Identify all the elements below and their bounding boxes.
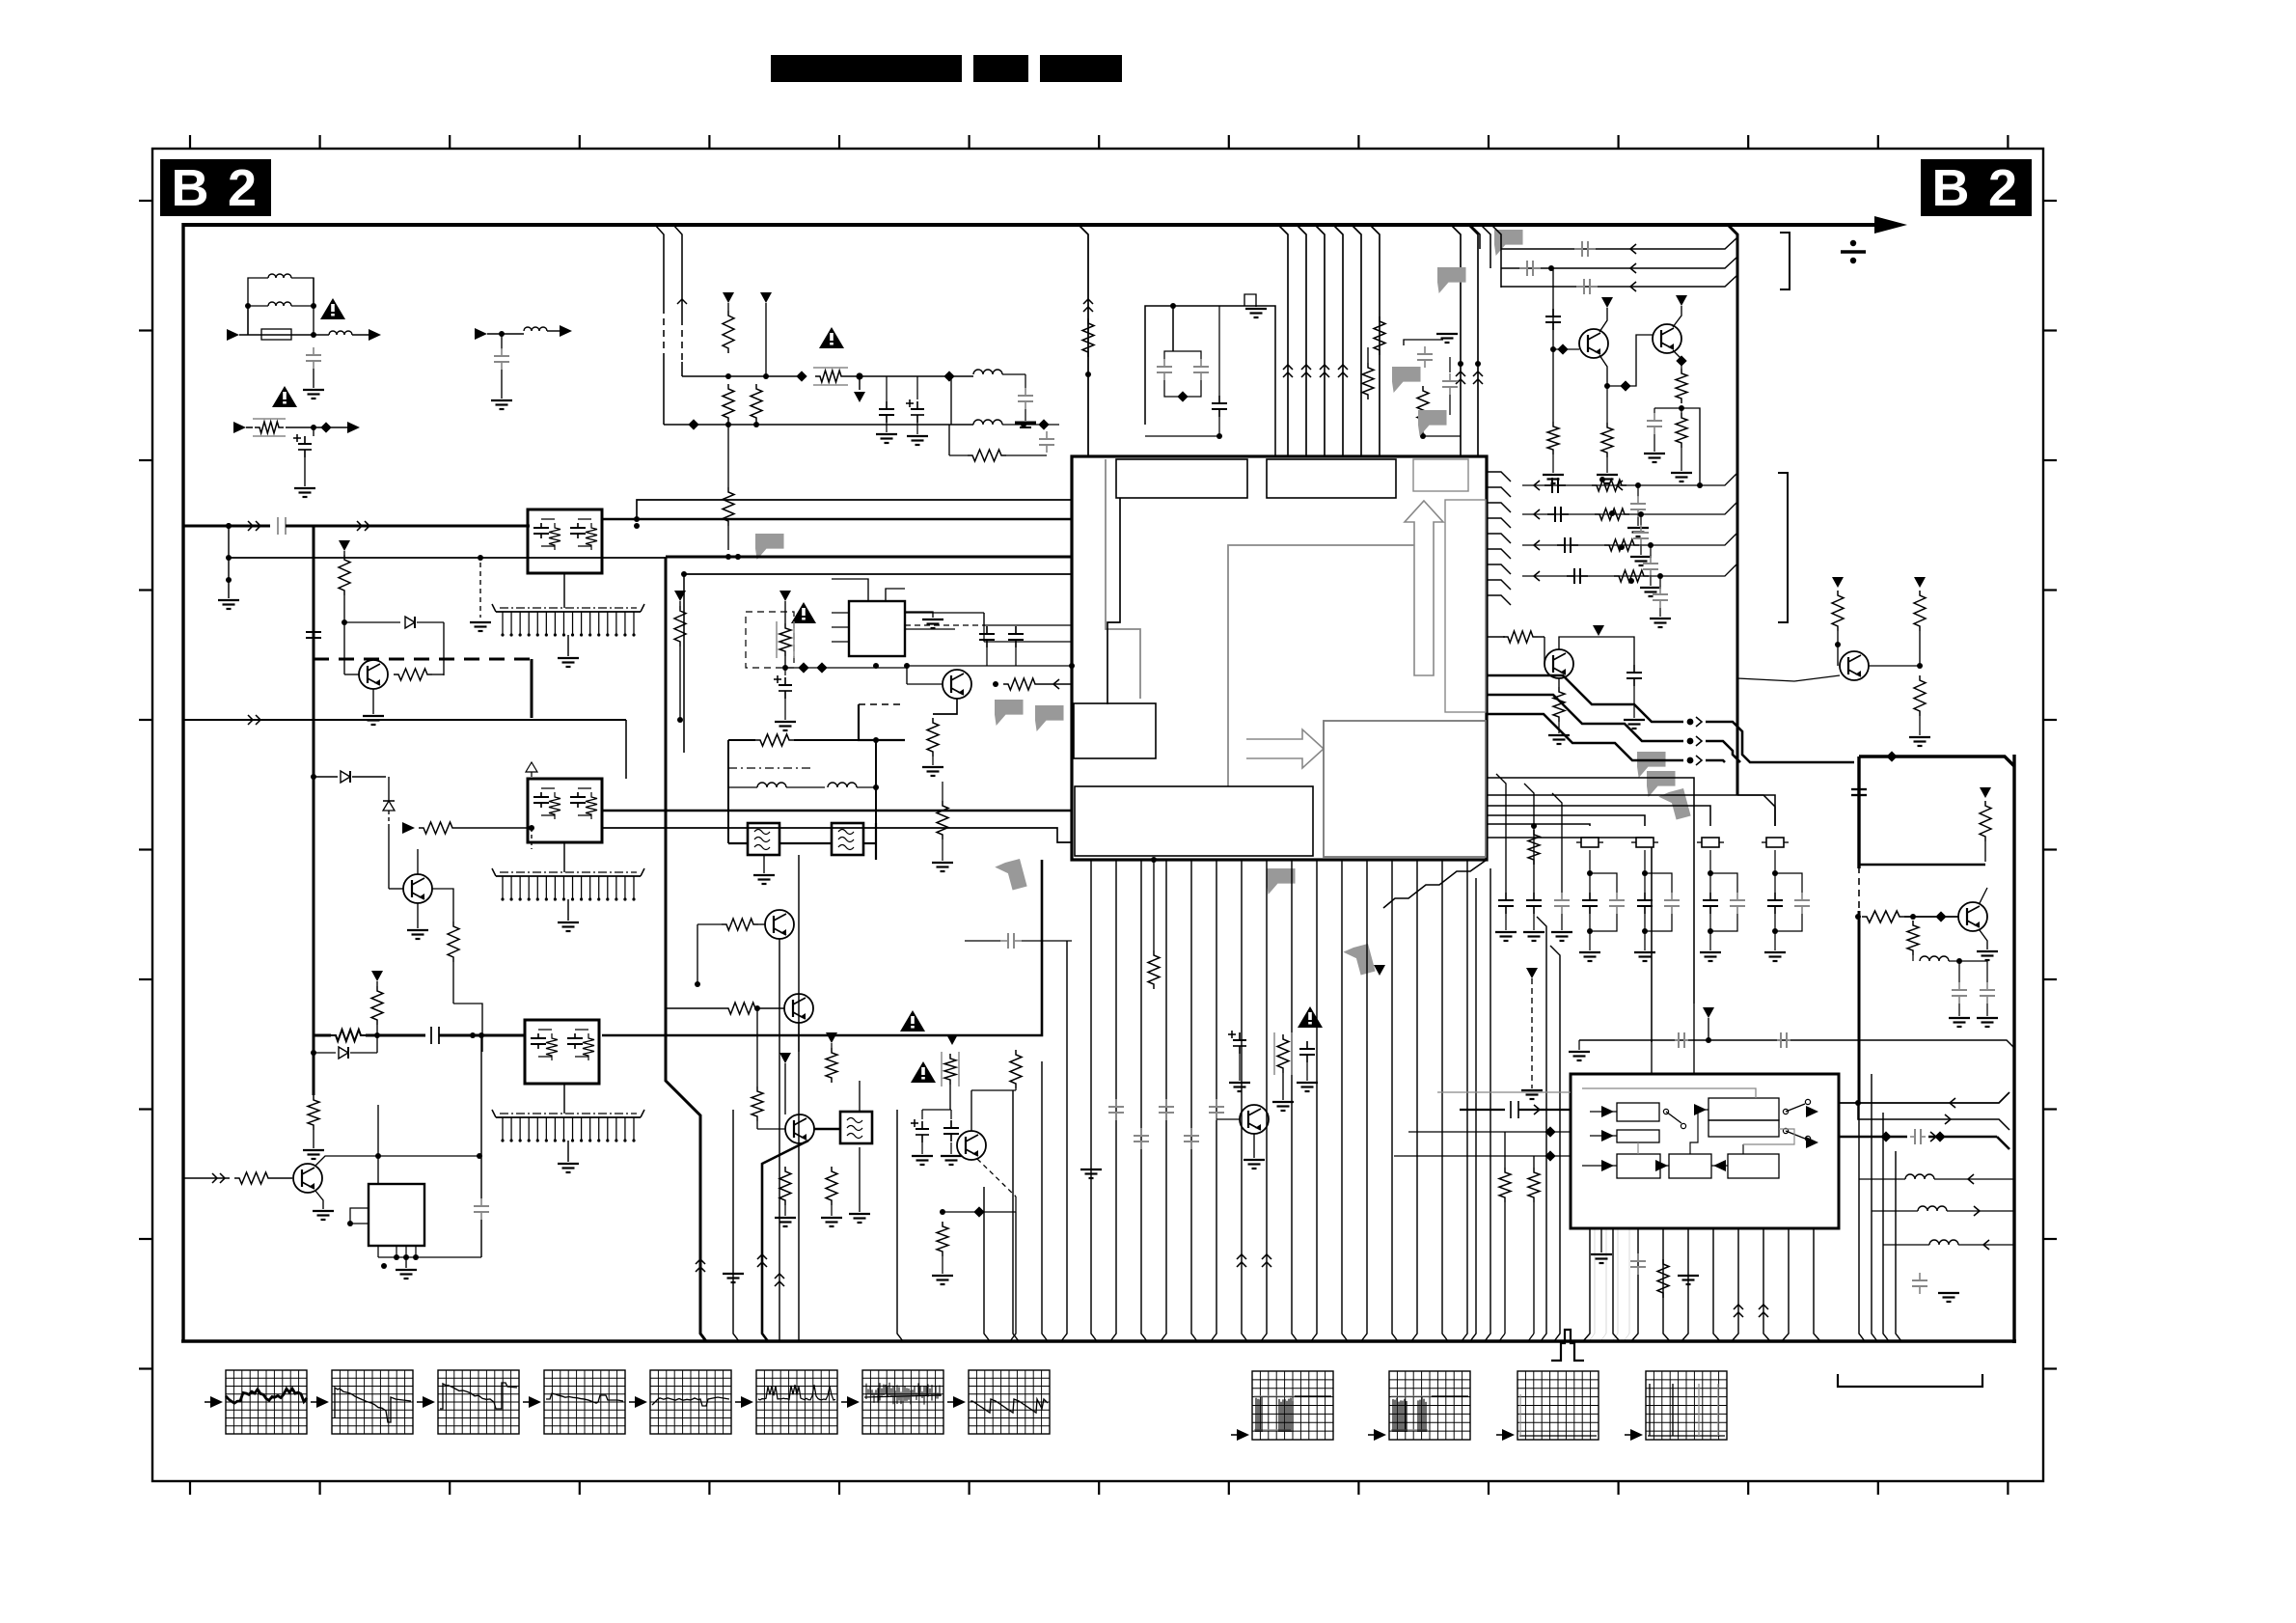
junction [1835,642,1841,647]
wire feed [1487,806,1710,826]
resistor R [1010,1050,1022,1088]
ground [1624,719,1645,721]
ground [763,855,765,873]
vertical wire to bottom edge [1537,917,1546,1341]
junction [311,425,316,430]
power arrow [779,591,791,601]
filter S2 [832,823,863,855]
U3 top pins [1651,1040,1653,1074]
wire [983,613,985,626]
waveform box 5 [650,1370,731,1434]
dash-dot wire [728,767,813,769]
junction [873,784,879,790]
dashed wire [859,703,905,705]
wire collector [315,1156,378,1166]
ground [372,689,374,714]
bracket right small [1780,233,1790,289]
inductor L [757,783,786,787]
thick jog [859,704,905,740]
ceramic filter cluster [1636,838,1654,847]
resistor R [331,1030,366,1041]
junction [375,1153,381,1159]
vertical trunk wire [1728,225,1737,795]
junction [374,1032,380,1038]
junction [725,422,731,427]
wire to cluster 4 [1737,795,1775,826]
capacitor C [1015,626,1017,634]
wire [432,889,453,922]
resistor R [722,919,758,930]
junction [993,681,998,687]
IC U1 internal block B [1267,459,1396,498]
transistor Q thick [785,1114,814,1143]
ground [294,487,315,489]
chevron [1534,509,1540,519]
extra vertical wires below IC [1061,941,1067,1341]
junction [1855,914,1861,920]
resistor R [1148,950,1160,989]
chevron [775,1274,784,1279]
capacitor C [1000,940,1008,942]
dashed drop to ground [479,563,481,618]
ground [1521,1089,1543,1091]
junction [394,1254,399,1260]
thick bus wire to FL3 [314,1034,331,1037]
U3 block a [1617,1103,1659,1121]
inductor L [524,327,547,331]
U3 internal wires [1582,1088,1756,1098]
resistor R [419,822,457,834]
signal arrow [352,334,369,336]
pulse waveform symbol [1551,1330,1584,1361]
chevron [677,299,687,304]
junction [311,1050,316,1056]
wire U2 left stub [350,1208,369,1224]
inductor row 1 [1859,1178,1905,1180]
IC U1 internal block A [1116,459,1247,498]
IC right pin bundle top [1487,472,1511,481]
resistor R [1374,316,1385,355]
capacitor gap [430,1027,432,1044]
power arrow [371,971,383,981]
wire [907,683,943,685]
filter module FL3 [525,1020,599,1084]
power arrow [760,292,772,303]
IC U1 internal block D [1074,703,1156,758]
gray highlight flag [1647,771,1676,797]
U3 bottom pins [1583,1228,1590,1341]
capacitor C [1046,431,1048,439]
wire dashed [905,624,984,626]
warning marker [272,386,297,407]
capacitor C [1910,1136,1915,1138]
chevron [1338,365,1348,370]
diode D vertical [388,777,390,801]
ground [1436,333,1458,335]
wire to Q2 base [1607,335,1653,386]
wire row [1522,533,1737,545]
wire [875,740,877,823]
power arrow [826,1032,837,1043]
resistor R [1003,678,1040,690]
IC U1 internal right arrow [1246,729,1324,768]
thick bus wire 2 [666,556,1072,559]
gray highlight flag [755,534,784,560]
resistor R [376,981,378,986]
capacitor C [1777,1039,1781,1041]
B2 grid label right [1921,159,2032,216]
chevron [1950,1098,1955,1108]
inductor L [828,783,857,787]
U3 output row 3 thick [1839,1136,1907,1139]
U3 input wires [1408,1131,1571,1133]
thick vertical wire [666,557,706,1341]
junction [1170,303,1176,309]
filter module FL1 [528,509,602,573]
power arrow [779,1053,791,1063]
wire emitter [933,699,957,714]
junction row [940,1209,945,1215]
bracket under bottom edge [1838,1374,1982,1387]
resistor R [448,922,459,962]
capacitor C [886,376,888,401]
inductor L [314,334,329,336]
resistor R [1862,911,1904,922]
potentiometer dashed box [746,612,794,668]
resistor R [949,454,968,456]
resistor R [1547,422,1559,454]
thick dashed jog [314,658,532,661]
resistor R [727,303,729,311]
thick bus wire [183,525,270,528]
thick wire from FL3 right [602,860,1042,1035]
junction [1708,870,1713,876]
IC U1 internal duct [1445,500,1486,712]
capacitor C pair [1164,351,1173,359]
switch box U3 [1571,1074,1839,1228]
ground [501,370,503,399]
resistor R [779,1167,791,1205]
wire [457,827,532,829]
transistor Q4 [957,1131,986,1160]
capacitor C [501,334,503,349]
junction [1085,371,1091,377]
thick wire from FL2 right [602,810,1072,812]
chevron [248,715,253,725]
wire [1172,306,1174,351]
resistor R [1082,318,1094,357]
resistor R [1832,591,1844,631]
junction [763,373,769,379]
junction [1021,422,1026,427]
wire with capacitor [1524,784,1534,893]
wire loop top [728,739,755,741]
thick wire [1859,864,1985,866]
power arrow [1374,965,1385,976]
chevron [1534,481,1540,490]
junction [782,665,788,671]
wire to bottom [1010,1212,1016,1341]
resistor R low [727,425,729,487]
capacitor C [1218,306,1220,396]
ground [1543,474,1564,476]
capacitor C [986,626,988,634]
ground [1627,527,1649,529]
input arrow [227,329,239,341]
resistor R [755,734,794,746]
wire [602,828,1072,842]
junction [1910,914,1916,920]
junction [1550,346,1556,352]
junction [1697,482,1703,488]
gray highlight flag [1035,705,1064,731]
junction [1706,1037,1711,1043]
title bar block 1 (redacted) [771,55,962,82]
capacitor C [1557,544,1565,546]
U3 output row 1 [1839,1092,2009,1103]
warning marker [791,602,816,623]
wire top loop [832,579,868,601]
U3 block d [1708,1120,1779,1137]
resistor R [831,1043,833,1048]
wire base [343,656,345,674]
resistor R [751,384,762,423]
wire row y390 [682,375,802,377]
wire to IC pin [637,500,1072,519]
transistor Q1 [1579,329,1608,358]
resistor R [826,1167,837,1205]
wire [443,622,445,675]
wire [378,1155,481,1157]
electrolytic capacitor [784,668,786,675]
ground [907,435,928,437]
wire bus to IC [1315,225,1325,456]
wire U2 top pin [377,1105,379,1184]
wire bus drop [1079,225,1088,456]
junction [1587,928,1593,934]
thick vertical wire left loop [313,526,315,1095]
resistor R [234,1172,273,1184]
resistor R [1657,1259,1669,1298]
resistor R [1417,386,1429,425]
waveform box 10 [1389,1371,1470,1440]
inner border bottom [181,1339,2016,1342]
resistor R [1362,363,1374,399]
capacitor C [1306,1041,1308,1049]
wire collector [1559,637,1634,665]
resistor R [1503,631,1538,643]
ground [821,1217,842,1219]
junction [695,981,700,987]
wire feed [1487,838,1652,1042]
junction [477,1153,482,1159]
U3 block c [1708,1098,1779,1120]
power arrow [859,376,861,390]
capacitor C [1919,1273,1921,1280]
power arrow [339,540,350,551]
safety resistor R [796,371,806,381]
wire [1002,424,1059,426]
junction [1679,405,1684,411]
wire stub down [228,526,230,564]
transistor Q [1958,902,1987,931]
ground [1548,734,1570,736]
resistor R [1528,830,1540,865]
junction [1635,482,1641,488]
ground bold [1015,422,1036,425]
wire emitter dashed [977,1159,1016,1197]
wire [697,924,698,984]
inductor row 3 [1883,1244,1929,1246]
safety pot [776,621,778,658]
bottom bends [1589,1228,1595,1341]
capacitor C [1547,513,1555,515]
junction [1638,511,1644,517]
svg-text:B: B [172,159,209,217]
inductor row 2 [1872,1210,1918,1212]
thick emitter wire [762,1141,808,1341]
capacitor C [313,624,314,632]
wire [1145,435,1219,437]
ground [1523,931,1544,933]
thick staircase wire 2 [1487,695,1683,741]
U3 block b [1617,1130,1659,1142]
chevron [1534,540,1540,550]
wire [343,595,345,656]
diode D [314,1052,336,1054]
ground [1644,453,1665,454]
warning marker [1298,1006,1323,1028]
right top wires with caps [1501,237,1737,249]
gray highlight flag [1437,267,1466,293]
inner border right [2012,755,2015,1343]
gray highlight flag [1658,788,1691,823]
gray highlight flag [1637,752,1666,778]
capacitor C [1449,373,1451,381]
capacitor C [480,1198,482,1206]
resistor R [1606,386,1608,423]
filter S1 [748,823,779,855]
safety resistor R [253,418,286,420]
waveform box 12 [1646,1371,1727,1440]
resistor R [1681,363,1682,369]
wire feed [1487,815,1645,826]
ground [775,1217,796,1219]
IC U1 internal block F [1324,721,1486,857]
transistor Q2 [1653,324,1681,353]
junction [1772,870,1778,876]
wire row y440 [664,424,973,426]
transistor Q [784,994,813,1023]
ground [1650,618,1671,619]
power arrow [1832,577,1844,588]
ground [732,1245,734,1272]
outer border frame [152,149,2043,1481]
transistor Q below IC [1240,1105,1269,1134]
ground [303,1149,324,1151]
transistor Q [293,1164,322,1193]
wire [846,375,973,377]
capacitor C [1958,961,1960,982]
capacitor C [1544,484,1552,486]
wire collector [970,1090,972,1131]
wire base [756,1121,758,1129]
IC left pin wires [984,624,1072,626]
ground [1579,951,1600,953]
filter S3 [840,1112,872,1143]
capacitor C [1567,575,1574,577]
capacitor C in thick line [1858,782,1860,789]
capacitor C [1659,576,1661,588]
diode D [344,621,400,623]
potentiometer dashed [1273,1032,1275,1075]
transistor Q [1840,651,1869,680]
input arrow 2 [475,328,487,340]
chevron [248,521,253,531]
junction [342,619,347,625]
ground [932,862,953,864]
resistor R below inputs [1533,1156,1535,1168]
ground [1949,1017,1970,1019]
capacitor gap in bus [277,517,279,535]
wire bus to IC [1370,225,1380,456]
power arrow [723,292,734,303]
junction [478,1032,484,1038]
transistor Q [359,660,388,689]
wire down from bus [480,1035,482,1198]
U3 inputs [1437,1091,1571,1093]
resistor R [752,1087,763,1121]
thick bus wire from FL1 [602,518,1072,521]
U3 block f [1669,1154,1711,1178]
junction [1956,958,1962,964]
wire column [1552,268,1554,422]
comb resonator [496,1116,641,1118]
electrolytic capacitor [1228,1033,1236,1035]
inductor L [973,370,1002,374]
capacitor C [1633,665,1635,673]
ground [1634,951,1655,953]
wire base [1553,348,1579,350]
junction [529,825,534,831]
IC U1 internal block C [1413,459,1468,491]
junction [1657,573,1663,579]
transistor Q [1544,649,1573,678]
chevron [1945,1114,1951,1124]
wire bus drop dashed [655,225,664,307]
power arrow [1914,577,1926,588]
resistor R [724,1003,760,1014]
ceramic filter cluster [1702,838,1719,847]
chevron [1534,571,1540,581]
ground [1080,1169,1102,1170]
wire loop left [727,740,729,843]
power arrow dashed wire [1526,968,1538,978]
ground [1700,951,1721,953]
svg-text:2: 2 [1988,159,2017,217]
resistor R [1914,591,1926,631]
IC U2 small block [369,1184,424,1246]
divide symbol [1841,250,1866,254]
wire [779,939,780,1341]
wire emitter [1558,678,1560,687]
ground [932,756,934,765]
ground [218,599,239,601]
diode D [531,762,533,777]
warning marker [320,298,345,319]
wire [1404,340,1443,345]
chevron [1320,365,1329,370]
